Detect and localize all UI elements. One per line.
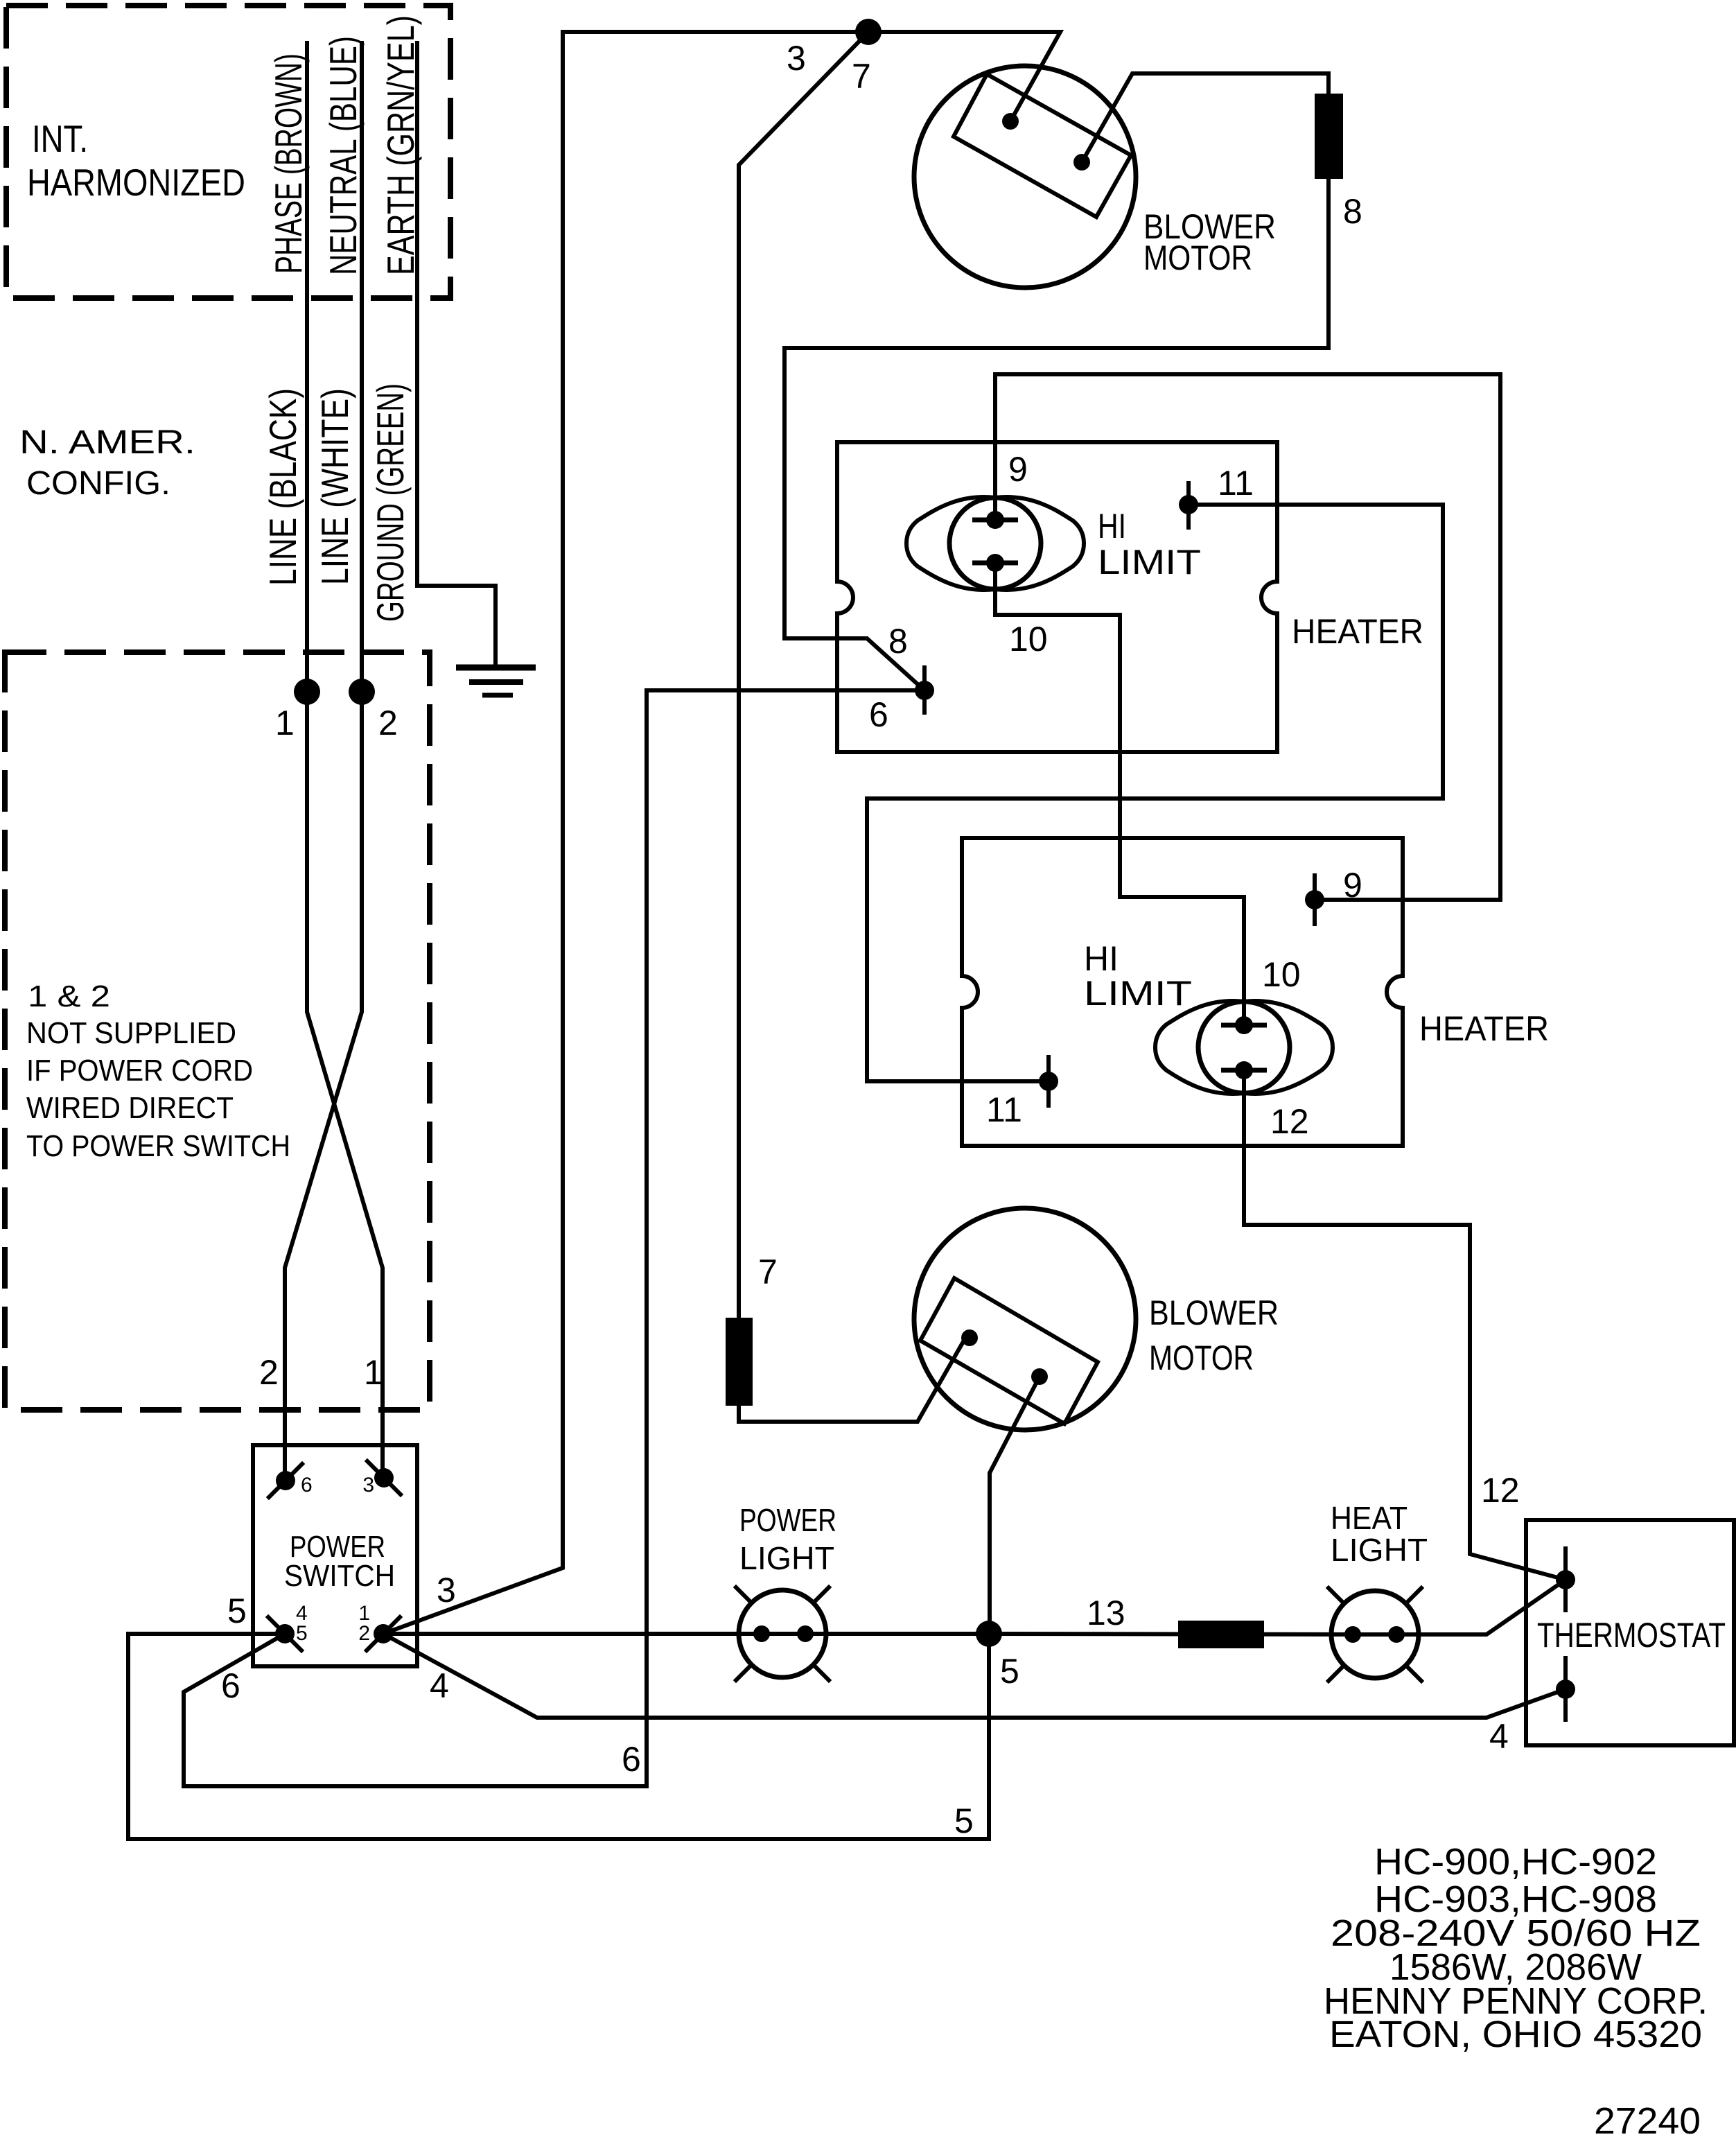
thermostat lower terminal	[1556, 1658, 1575, 1720]
wire 3: power switch terminal 1/2 up left side to top junction	[383, 32, 868, 1634]
svg-text:1 & 2: 1 & 2	[28, 979, 110, 1013]
ground symbol	[456, 668, 536, 695]
svg-text:POWER: POWER	[739, 1502, 836, 1538]
svg-text:GROUND (GREEN): GROUND (GREEN)	[369, 383, 412, 622]
svg-text:10: 10	[1009, 620, 1048, 658]
wire 4: terminal 1/2 diagonal down, across bottom to thermostat lower terminal	[383, 1634, 1566, 1718]
svg-text:7: 7	[758, 1253, 778, 1291]
svg-text:2: 2	[378, 704, 398, 742]
svg-text:LIMIT: LIMIT	[1084, 974, 1192, 1013]
svg-text:LIGHT: LIGHT	[1331, 1532, 1428, 1568]
svg-text:6: 6	[869, 695, 888, 734]
svg-text:4: 4	[1489, 1717, 1509, 1756]
svg-text:2: 2	[259, 1353, 279, 1392]
svg-text:4: 4	[430, 1666, 449, 1705]
svg-text:6: 6	[221, 1666, 240, 1705]
enclosure box INT. HARMONIZED (dashed)	[6, 6, 450, 298]
wire earth/ground-green down to ground symbol	[417, 43, 496, 668]
heater-2 terminal 11	[1039, 1057, 1058, 1106]
heater-1 terminal 6/8	[915, 668, 934, 713]
svg-text:BLOWER: BLOWER	[1149, 1293, 1279, 1332]
heater box 1 outline with notches	[837, 442, 1277, 752]
wire 9: heater-1 hi-limit top, up over and down to heater-2 terminal 9	[995, 374, 1500, 900]
svg-text:5: 5	[1000, 1652, 1019, 1691]
svg-text:5: 5	[296, 1622, 308, 1645]
thermostat body	[1526, 1520, 1734, 1745]
wire 5: terminal 4/5 left, down, across bottom, up to power-light junction 5	[128, 1634, 989, 1839]
thermostat upper terminal	[1556, 1549, 1575, 1610]
svg-text:6: 6	[622, 1740, 641, 1779]
wire neutral/line-white: vertical drop, cross-over to power switch terminal 6	[285, 43, 362, 1481]
svg-text:3: 3	[437, 1571, 456, 1610]
heater-2 terminal 9	[1305, 875, 1324, 924]
wire: motor 2 right terminal down to junction 5	[990, 1377, 1040, 1634]
svg-text:11: 11	[986, 1090, 1022, 1129]
junction node 1 on line-black	[294, 679, 320, 705]
svg-text:WIRED DIRECT: WIRED DIRECT	[26, 1091, 234, 1125]
svg-text:N. AMER.: N. AMER.	[19, 424, 195, 461]
svg-text:13: 13	[1087, 1594, 1125, 1632]
power switch terminal 6 (top-left)	[269, 1464, 313, 1497]
hi-limit switch 1 symbol	[906, 497, 1084, 590]
svg-text:5: 5	[227, 1591, 247, 1630]
power switch terminal 1/2 (bottom-right)	[358, 1602, 400, 1650]
svg-text:9: 9	[1008, 450, 1028, 489]
svg-text:8: 8	[1343, 192, 1362, 231]
svg-text:10: 10	[1262, 955, 1301, 994]
svg-text:1: 1	[364, 1353, 383, 1392]
svg-text:9: 9	[1343, 866, 1362, 905]
hi-limit switch 2 symbol	[1155, 1001, 1333, 1094]
junction node 3/7 at top	[855, 19, 882, 45]
svg-text:8: 8	[888, 622, 908, 661]
heat light PL2	[1329, 1588, 1421, 1681]
wire phase/line-black: vertical drop, cross-over to power switch terminal 3	[307, 43, 383, 1478]
wire 11: heater-1 terminal 11 over and down to heater-2 terminal 11	[867, 505, 1443, 1081]
svg-text:12: 12	[1270, 1102, 1309, 1141]
svg-text:12: 12	[1481, 1471, 1520, 1510]
svg-text:7: 7	[852, 57, 871, 96]
blower motor M2	[914, 1208, 1136, 1430]
svg-text:EARTH (GRN/YEL): EARTH (GRN/YEL)	[379, 15, 422, 275]
junction node 2 on line-white	[349, 679, 375, 705]
svg-text:EATON, OHIO 45320: EATON, OHIO 45320	[1329, 2014, 1702, 2055]
wire 12: hi-limit 2 bottom to thermostat upper terminal	[1244, 1070, 1566, 1580]
wire 10: heater-1 hi-limit bottom down to heater-2 hi-limit top	[995, 563, 1244, 1025]
wire 6: terminal 4/5 diagonal down, across, up to heater-1 terminal 6	[184, 690, 922, 1786]
power switch S1 body	[253, 1445, 417, 1666]
svg-text:HEATER: HEATER	[1419, 1009, 1549, 1048]
fuse/resistor 7	[726, 1318, 753, 1406]
heater box 2 outline with notches	[962, 838, 1403, 1146]
svg-text:3: 3	[362, 1474, 374, 1497]
svg-text:1: 1	[275, 704, 295, 742]
svg-text:HEAT: HEAT	[1331, 1500, 1408, 1536]
power light PL1	[736, 1587, 829, 1680]
svg-text:THERMOSTAT: THERMOSTAT	[1537, 1616, 1726, 1655]
svg-text:3: 3	[787, 39, 806, 78]
svg-text:CONFIG.: CONFIG.	[26, 465, 170, 502]
svg-text:27240: 27240	[1594, 2100, 1701, 2137]
wire 7: top junction diagonal down, long drop through fuse 7, to blower motor 2 left terminal	[739, 32, 967, 1422]
fuse/resistor 8	[1315, 94, 1343, 179]
blower motor M1	[914, 66, 1136, 288]
svg-text:6: 6	[301, 1474, 313, 1497]
wire 8: motor 1 right terminal through fuse 8, down and across to heater-1 terminal 6/8	[784, 73, 1329, 690]
svg-text:NEUTRAL (BLUE): NEUTRAL (BLUE)	[322, 36, 365, 275]
svg-text:2: 2	[358, 1622, 370, 1645]
svg-text:PHASE (BROWN): PHASE (BROWN)	[267, 53, 310, 274]
junction node 5	[976, 1621, 1002, 1647]
svg-text:HI: HI	[1084, 939, 1119, 978]
svg-text:NOT SUPPLIED: NOT SUPPLIED	[26, 1016, 236, 1050]
power switch terminal 3 (top-right)	[362, 1461, 401, 1497]
svg-text:MOTOR: MOTOR	[1149, 1338, 1254, 1377]
wire from top junction to blower motor 1 left terminal	[868, 32, 1060, 121]
svg-text:LIMIT: LIMIT	[1098, 543, 1201, 582]
svg-text:IF POWER CORD: IF POWER CORD	[26, 1054, 253, 1088]
svg-text:LINE (BLACK): LINE (BLACK)	[261, 388, 304, 586]
svg-text:TO POWER SWITCH: TO POWER SWITCH	[26, 1129, 290, 1163]
svg-text:HEATER: HEATER	[1292, 612, 1423, 651]
svg-text:HC-900,HC-902: HC-900,HC-902	[1374, 1841, 1657, 1883]
svg-text:HARMONIZED: HARMONIZED	[27, 161, 245, 204]
svg-text:INT.: INT.	[32, 117, 88, 160]
svg-text:5: 5	[954, 1802, 974, 1840]
svg-text:LINE (WHITE): LINE (WHITE)	[313, 388, 356, 585]
enclosure box N. AMER. CONFIG (dashed)	[5, 652, 430, 1410]
heater-1 terminal 11	[1179, 483, 1198, 527]
svg-text:HI: HI	[1098, 507, 1126, 546]
wire from terminal 1/2 to power light and junction 5	[383, 1632, 989, 1636]
fuse/resistor on wire 13	[1178, 1621, 1264, 1648]
wire 13: junction 5 to heat light and thermostat upper terminal	[989, 1580, 1566, 1634]
svg-text:MOTOR: MOTOR	[1143, 238, 1252, 277]
svg-text:SWITCH: SWITCH	[284, 1559, 395, 1593]
power switch terminal 4/5 (bottom-left)	[268, 1602, 308, 1650]
svg-text:11: 11	[1218, 464, 1254, 503]
svg-text:LIGHT: LIGHT	[739, 1540, 834, 1576]
